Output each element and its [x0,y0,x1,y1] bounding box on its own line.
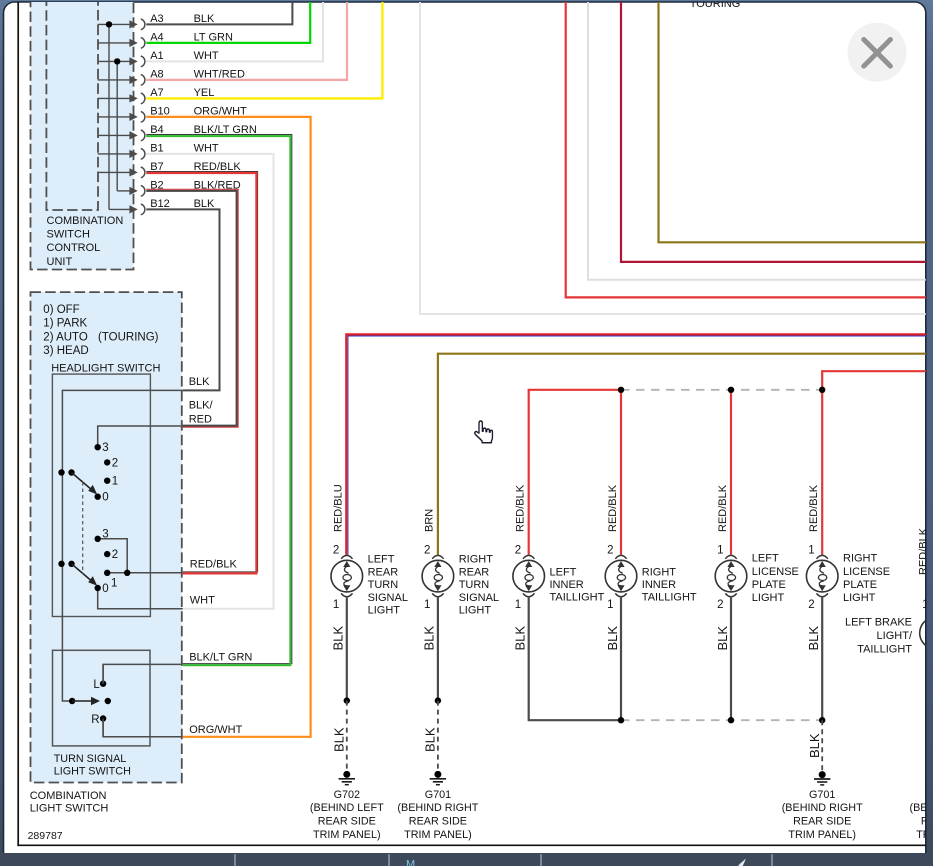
svg-text:B12: B12 [150,198,170,210]
svg-text:LICENSE: LICENSE [752,566,799,578]
svg-text:2: 2 [333,545,339,557]
svg-text:1: 1 [112,476,118,488]
svg-text:RED/BLK: RED/BLK [918,527,930,575]
svg-text:BLK: BLK [715,626,730,651]
svg-text:PLATE: PLATE [752,579,786,591]
svg-text:TURN SIGNAL: TURN SIGNAL [54,753,127,765]
svg-text:ORG/WHT: ORG/WHT [194,105,247,117]
svg-text:1: 1 [111,578,117,590]
svg-text:(BEHIND RIGHT: (BEHIND RIGHT [910,802,933,814]
svg-text:WHT: WHT [194,50,219,62]
svg-text:3: 3 [102,442,108,454]
svg-text:REAR: REAR [368,566,399,578]
svg-text:LICENSE: LICENSE [843,566,890,578]
svg-text:LIGHT SWITCH: LIGHT SWITCH [54,766,131,778]
svg-text:0) OFF: 0) OFF [43,304,79,316]
svg-text:COMBINATION: COMBINATION [30,790,107,802]
svg-text:G701: G701 [809,789,835,801]
svg-text:2: 2 [112,549,118,561]
svg-text:BLK: BLK [331,626,346,651]
svg-text:BLK: BLK [194,13,215,25]
svg-text:HEADLIGHT SWITCH: HEADLIGHT SWITCH [51,363,160,375]
svg-text:TRIM PANEL): TRIM PANEL) [313,829,381,841]
svg-text:(TOURING): (TOURING) [98,331,159,343]
svg-text:289787: 289787 [28,830,63,842]
svg-text:1: 1 [424,599,430,611]
svg-text:LEFT BRAKE: LEFT BRAKE [845,616,912,628]
svg-text:TRIM PANEL): TRIM PANEL) [916,829,933,841]
svg-text:G701: G701 [425,789,451,801]
svg-text:WHT: WHT [190,594,215,606]
svg-text:TAILLIGHT: TAILLIGHT [857,644,912,656]
svg-text:1: 1 [808,545,814,557]
svg-text:BLK: BLK [189,376,210,388]
svg-text:INNER: INNER [642,579,676,591]
svg-text:BLK: BLK [194,198,215,210]
svg-text:R: R [91,714,99,726]
svg-text:1: 1 [607,599,613,611]
svg-text:A1: A1 [150,50,163,62]
svg-text:(BEHIND RIGHT: (BEHIND RIGHT [782,802,863,814]
svg-text:1: 1 [333,599,339,611]
svg-text:ORG/WHT: ORG/WHT [189,724,242,736]
svg-text:RIGHT: RIGHT [642,566,677,578]
svg-text:A7: A7 [150,87,163,99]
svg-text:LEFT: LEFT [368,554,395,566]
svg-text:SIGNAL: SIGNAL [368,592,408,604]
svg-text:PLATE: PLATE [843,579,877,591]
svg-text:UNIT: UNIT [47,256,73,268]
svg-text:LT GRN: LT GRN [194,31,233,43]
svg-text:1: 1 [515,599,521,611]
svg-text:2: 2 [717,599,723,611]
svg-text:2: 2 [424,545,430,557]
svg-text:0: 0 [102,583,108,595]
svg-text:BLK: BLK [513,626,528,651]
svg-text:A8: A8 [150,68,163,80]
svg-text:TURN: TURN [368,579,399,591]
svg-text:BRN: BRN [424,509,436,532]
svg-text:BLK/LT GRN: BLK/LT GRN [194,124,257,136]
svg-text:BLK: BLK [332,727,347,752]
svg-text:REAR: REAR [459,566,490,578]
svg-text:BLK: BLK [807,733,822,758]
svg-text:B1: B1 [150,142,163,154]
svg-text:REAR SIDE: REAR SIDE [409,815,467,827]
svg-text:3) HEAD: 3) HEAD [43,345,88,357]
svg-text:2: 2 [607,545,613,557]
svg-text:M: M [406,859,415,866]
svg-text:1) PARK: 1) PARK [43,318,87,330]
svg-text:1: 1 [717,545,723,557]
svg-text:RIGHT: RIGHT [843,553,878,565]
svg-text:BLK: BLK [605,626,620,651]
svg-text:LIGHT: LIGHT [368,604,401,616]
svg-text:RED/BLK: RED/BLK [607,484,619,532]
svg-text:G702: G702 [334,789,360,801]
svg-text:TAILLIGHT: TAILLIGHT [550,592,605,604]
svg-text:A3: A3 [150,13,163,25]
svg-text:RED/BLK: RED/BLK [190,558,238,570]
svg-text:WHT: WHT [194,142,219,154]
svg-text:LIGHT: LIGHT [843,592,876,604]
svg-text:INNER: INNER [550,579,584,591]
svg-text:RED/BLU: RED/BLU [333,484,345,532]
svg-text:2: 2 [808,599,814,611]
svg-text:REAR SIDE: REAR SIDE [793,815,851,827]
svg-text:RED/BLK: RED/BLK [717,484,729,532]
svg-text:RIGHT: RIGHT [459,554,494,566]
svg-text:LEFT: LEFT [550,566,577,578]
svg-text:B4: B4 [150,124,163,136]
svg-text:A4: A4 [150,31,163,43]
svg-text:TAILLIGHT: TAILLIGHT [642,592,697,604]
svg-text:2: 2 [515,545,521,557]
svg-text:0: 0 [102,492,108,504]
svg-text:CONTROL: CONTROL [47,242,101,254]
svg-text:BLK: BLK [423,727,438,752]
svg-text:BLK: BLK [422,626,437,651]
svg-text:3: 3 [102,529,108,541]
svg-text:BLK/LT GRN: BLK/LT GRN [189,651,252,663]
svg-text:B10: B10 [150,105,170,117]
svg-text:LIGHT/: LIGHT/ [877,630,913,642]
svg-text:TRIM PANEL): TRIM PANEL) [788,829,856,841]
svg-text:1: 1 [922,599,928,611]
svg-text:REAR SIDE: REAR SIDE [318,815,376,827]
svg-text:YEL: YEL [194,87,215,99]
svg-text:SIGNAL: SIGNAL [459,592,499,604]
svg-text:BLK/: BLK/ [189,400,214,412]
svg-text:RED: RED [189,414,212,426]
svg-text:TRIM PANEL): TRIM PANEL) [404,829,472,841]
svg-text:LIGHT: LIGHT [752,592,785,604]
svg-text:RED/BLK: RED/BLK [515,484,527,532]
svg-text:(BEHIND RIGHT: (BEHIND RIGHT [397,802,478,814]
svg-text:COMBINATION: COMBINATION [47,215,124,227]
svg-text:REAR SIDE: REAR SIDE [921,815,933,827]
svg-text:(BEHIND LEFT: (BEHIND LEFT [310,802,384,814]
svg-text:WHT/RED: WHT/RED [194,68,245,80]
svg-text:LEFT: LEFT [752,553,779,565]
svg-text:L: L [93,679,100,691]
svg-text:TURN: TURN [459,579,490,591]
svg-text:RED/BLK: RED/BLK [808,484,820,532]
svg-text:2: 2 [112,457,118,469]
svg-text:SWITCH: SWITCH [47,229,90,241]
svg-text:LIGHT SWITCH: LIGHT SWITCH [30,803,109,815]
svg-text:BLK: BLK [806,626,821,651]
svg-text:LIGHT: LIGHT [459,604,492,616]
svg-text:2) AUTO: 2) AUTO [43,331,88,343]
